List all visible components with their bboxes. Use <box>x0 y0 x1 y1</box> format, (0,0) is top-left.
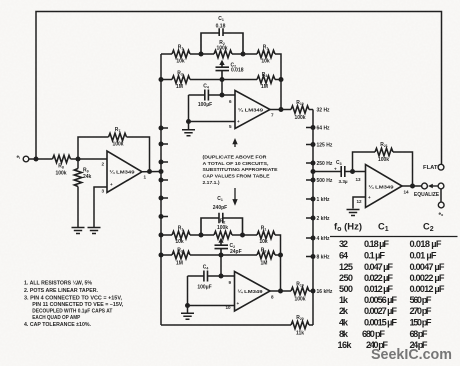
ground at pin 3 <box>88 228 101 234</box>
wire bypass: input node up, across top, down to FLAT contact <box>36 12 442 165</box>
switch wiper pole with arrow <box>428 183 444 189</box>
node C1 right junction <box>241 52 246 57</box>
node input/bypass junction <box>34 157 39 162</box>
node C1 left junction <box>199 52 204 57</box>
wire rail stub 6 <box>161 216 168 218</box>
wire pole to output terminal <box>440 189 442 202</box>
wire bus stub 250Hz <box>306 162 313 164</box>
wire bus stub 8kHz <box>306 256 313 258</box>
resistor R1 10k (band 10 right) <box>243 226 281 291</box>
capacitor C4 100uF (band 10) <box>188 265 235 291</box>
wire bus stub 125Hz <box>306 144 313 146</box>
node output-to-rail junction <box>159 169 164 174</box>
op-amp U1B 1/4 LM349 (band 1) <box>235 91 270 129</box>
wire bus stub 2kHz <box>306 217 313 219</box>
node C4/pin9 junction <box>219 274 224 279</box>
potentiometer R2 100k (band 1) <box>201 40 243 58</box>
node C1 left junction <box>199 233 204 238</box>
node C4/pin6 junction <box>220 93 225 98</box>
wire buffer-output rail (node A) <box>160 54 162 325</box>
resistor R3 1M (band 10 right) <box>221 247 281 266</box>
node 16kHz junction <box>311 289 316 294</box>
node ground branch junction <box>186 119 191 124</box>
node bus stub dots <box>311 125 316 130</box>
pin 3 wire and label <box>94 187 107 227</box>
node rail stub dots <box>159 126 164 131</box>
duplicate-note up arrow <box>233 140 236 147</box>
wire R8 to pin2 <box>71 158 108 160</box>
wire rail stub 1 <box>161 127 168 129</box>
potentiometer R2 100k (band 10) <box>201 218 243 238</box>
resistor R3 1M (band 1 left) <box>161 71 222 91</box>
wire bus stub 4kHz <box>306 237 313 239</box>
duplicate-note down arrow <box>233 188 236 204</box>
wire C4 left to ground branch and pin 5 <box>189 95 236 129</box>
resistor R1 10k (band 1 left) <box>161 45 201 65</box>
input terminal e_i <box>17 154 29 162</box>
wire rail stub 2 <box>161 143 168 145</box>
op-amp U1D summing 1/4 LM349 <box>366 165 403 208</box>
resistor R8 100k <box>53 155 71 176</box>
wire rail stub 3 <box>161 161 168 163</box>
R20 resistor 11k on bottom return wire <box>291 315 309 337</box>
node output junction <box>410 184 415 189</box>
resistor R19 100k <box>291 282 313 303</box>
op-amp U1A buffer 1/4 LM349 <box>107 151 142 193</box>
wire bus stub 1kHz <box>306 198 313 200</box>
pot R2 wiper arrow <box>219 60 224 65</box>
table header fo(Hz) C1 C2 <box>334 222 434 234</box>
table header underline <box>330 236 458 238</box>
wire output to R10 <box>270 109 291 111</box>
op-amp U1C 1/4 LM349 (band 10) <box>235 272 271 312</box>
node summing input junction <box>311 169 316 174</box>
capacitor C3 3.3u electrolytic <box>313 160 366 184</box>
wire summing bus vertical <box>312 110 314 326</box>
pin 12 wire and label <box>353 197 366 209</box>
node feedback/output junction <box>147 169 152 174</box>
node rail R3 junction <box>159 253 164 258</box>
notes text block <box>24 280 124 328</box>
resistor R1 10k (band 10 left) <box>161 226 201 245</box>
wire bus stub 64Hz <box>306 127 313 129</box>
wire C4 left to ground branch and pin 10 <box>188 276 235 313</box>
wire rail stub 5 <box>161 197 168 199</box>
wire C2 node down to pin 6 <box>221 80 223 96</box>
wire C2 node down to pin 9 <box>220 255 222 276</box>
wire bottom summing return <box>161 324 313 326</box>
table body <box>338 239 445 350</box>
wire buffer output to rail <box>142 171 161 173</box>
resistor R10 100k <box>291 100 313 121</box>
wire bus stub 500Hz <box>306 179 313 181</box>
node C3/feedback junction <box>350 169 355 174</box>
resistor R7 100k feedback <box>78 127 150 172</box>
node right vertical R3 junction <box>279 77 284 82</box>
node right vertical R3 junction <box>278 253 283 258</box>
node rail R3 junction <box>159 77 164 82</box>
resistor R3 1M (band 10 left) <box>161 247 221 266</box>
resistor R3 1M (band 1 right) <box>222 72 281 90</box>
ground band 1 <box>182 130 195 136</box>
resistor R21 100k feedback <box>353 142 413 186</box>
ground at pin 12 <box>347 210 360 216</box>
switch contact EQUALIZE <box>414 183 440 198</box>
node output/feedback junction <box>279 107 284 112</box>
node rail R1 junction <box>159 233 164 238</box>
capacitor C1 240pF (band 10) <box>201 196 243 235</box>
wire input to R8 <box>29 158 53 160</box>
wire output to switch <box>402 185 422 187</box>
capacitor C2 24pF (band 10) <box>215 243 242 255</box>
resistor R1 10k (band 1 right) <box>243 45 281 110</box>
duplicate-note text <box>203 155 279 186</box>
node C2/R3 junction <box>219 253 224 258</box>
node C2/R3 junction <box>220 77 225 82</box>
pot R2 wiper arrow <box>218 238 223 243</box>
resistor R9 24k <box>74 159 91 227</box>
ground band 10 <box>181 313 194 319</box>
wire rail stub 4 <box>161 179 168 181</box>
ground below R9 <box>72 228 85 234</box>
node buffer inverting input junction <box>76 157 81 162</box>
output terminal e_o <box>438 202 444 217</box>
wire output to R19 <box>270 290 291 292</box>
node output/feedback junction <box>278 289 283 294</box>
node C1 right junction <box>240 233 245 238</box>
node ground branch junction <box>185 303 190 308</box>
switch contact FLAT <box>423 164 444 171</box>
capacitor C2 0.018 (band 1) <box>216 63 244 80</box>
capacitor C1 0.18 (band 1) <box>201 16 243 54</box>
capacitor C4 100uF (band 1) <box>189 84 236 109</box>
